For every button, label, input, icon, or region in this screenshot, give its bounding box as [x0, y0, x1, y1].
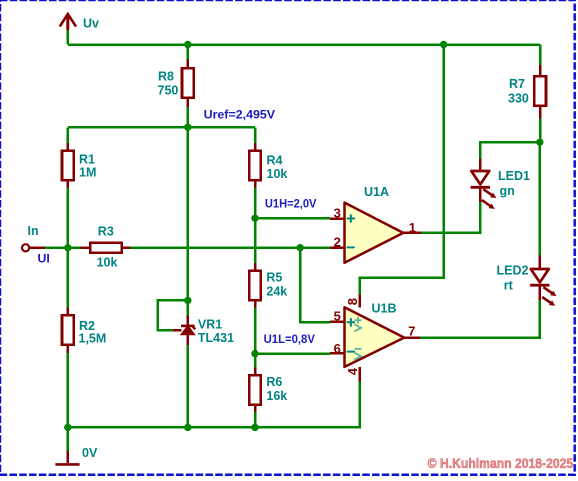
svg-text:R8: R8: [158, 69, 174, 83]
wire R1 bottom to input node: [67, 188, 70, 248]
wire LED1 feed: [480, 142, 540, 158]
resistor R3: [80, 243, 130, 253]
wire R3 to pin2: [130, 246, 330, 249]
wire R5 bottom to U1L node: [254, 307, 257, 353]
wire U1L down to R6: [254, 354, 257, 368]
svg-text:R4: R4: [267, 154, 283, 168]
wire R8 top: [187, 45, 190, 60]
svg-text:6: 6: [334, 341, 341, 356]
svg-text:U1B: U1B: [372, 301, 397, 315]
svg-text:Uv: Uv: [83, 17, 99, 31]
svg-text:10k: 10k: [97, 256, 118, 270]
svg-text:10k: 10k: [267, 167, 288, 181]
svg-text:U1H=2,0V: U1H=2,0V: [265, 197, 317, 211]
node top rail / R8: [184, 41, 191, 48]
node input junction: [64, 244, 71, 251]
diode LED2: [530, 256, 556, 306]
node signal branch: [297, 244, 304, 251]
node U1L: [251, 350, 258, 357]
node bottom rail VR1: [184, 424, 191, 431]
svg-text:R7: R7: [509, 77, 525, 91]
svg-text:1M: 1M: [79, 166, 96, 180]
wire VR1 anode down: [187, 345, 190, 427]
svg-text:R3: R3: [98, 225, 114, 239]
node LED feed: [536, 139, 543, 146]
svg-text:24k: 24k: [266, 285, 287, 299]
wire R4 column top: [254, 127, 257, 143]
wire top rail: [68, 43, 540, 46]
wire branch down to pin5: [300, 248, 330, 322]
wire U1B power from rail: [360, 45, 444, 295]
node bottom rail R6: [251, 424, 258, 431]
wire R8 bottom to Uref rail: [187, 107, 190, 127]
node top rail / U1B power: [440, 41, 447, 48]
svg-text:In: In: [28, 224, 39, 238]
svg-text:7: 7: [408, 323, 415, 338]
terminal In circle: [22, 244, 29, 251]
node U1H: [251, 215, 258, 222]
wire R6 bottom: [254, 412, 257, 428]
wire R2 bottom: [67, 353, 70, 427]
svg-text:5: 5: [334, 309, 341, 324]
svg-text:© H.Kuhlmann 2018-2025: © H.Kuhlmann 2018-2025: [428, 456, 574, 471]
svg-text:U1L=0,8V: U1L=0,8V: [264, 332, 316, 346]
wire R2 top: [67, 248, 70, 308]
power symbol Uv arrow: [60, 14, 76, 30]
svg-text:Uref=2,495V: Uref=2,495V: [204, 107, 276, 121]
node VR1 feedback: [184, 297, 191, 304]
resistor R8: [182, 59, 194, 107]
svg-text:4: 4: [345, 367, 360, 375]
node bottom rail ground: [64, 424, 71, 431]
svg-text:3: 3: [334, 205, 341, 220]
svg-text:8: 8: [345, 298, 360, 305]
svg-text:R6: R6: [266, 375, 282, 389]
svg-text:0V: 0V: [82, 446, 98, 460]
svg-text:750: 750: [158, 84, 179, 98]
wire U1L to pin6: [255, 352, 330, 355]
wire U1B pin4 to bottom rail: [68, 382, 360, 428]
svg-text:U1A: U1A: [364, 185, 389, 199]
svg-text:330: 330: [508, 92, 529, 106]
op-amp U1A: [330, 203, 421, 263]
resistor R1: [62, 143, 74, 188]
regulator VR1 TL431: [173, 316, 195, 346]
svg-text:1: 1: [409, 220, 416, 235]
wire R1 top: [67, 127, 70, 143]
wire LED2 feed: [539, 142, 542, 255]
wire U1B output to LED2: [420, 300, 540, 338]
wire U1H down to R5: [254, 218, 257, 263]
svg-text:2: 2: [334, 235, 341, 250]
svg-text:TL431: TL431: [198, 331, 234, 345]
svg-text:rt: rt: [504, 278, 514, 292]
diode LED1: [471, 158, 497, 209]
resistor R5: [249, 263, 261, 307]
wire R7 top: [539, 45, 542, 66]
wire Uref rail: [68, 126, 255, 129]
svg-text:LED1: LED1: [498, 169, 530, 183]
svg-text:LED2: LED2: [497, 263, 529, 277]
svg-text:gn: gn: [500, 184, 515, 198]
svg-text:16k: 16k: [266, 389, 287, 403]
wire VR1 feedback loop: [158, 300, 188, 330]
wire U1H to pin3: [255, 217, 330, 220]
wire VR1 column from Uref: [187, 127, 190, 315]
wire R4 bottom to U1H node: [254, 188, 257, 219]
svg-text:1,5M: 1,5M: [79, 332, 107, 346]
wire ground stem: [67, 427, 70, 450]
ground 0V symbol: [55, 451, 79, 465]
wire U1A output to LED1: [421, 202, 481, 233]
svg-text:VR1: VR1: [198, 317, 222, 331]
wire In to R3: [45, 246, 80, 249]
wire Uv stem: [67, 30, 70, 44]
resistor R4: [249, 143, 261, 188]
resistor R6: [249, 367, 261, 412]
pin In lead: [30, 247, 46, 250]
wire R7 bottom to LED node: [539, 119, 542, 143]
resistor R7: [534, 65, 546, 119]
resistor R2: [62, 308, 74, 354]
op-amp U1B: [330, 294, 420, 381]
svg-text:R5: R5: [266, 271, 282, 285]
node Uref: [184, 124, 191, 131]
svg-text:UI: UI: [38, 252, 50, 266]
